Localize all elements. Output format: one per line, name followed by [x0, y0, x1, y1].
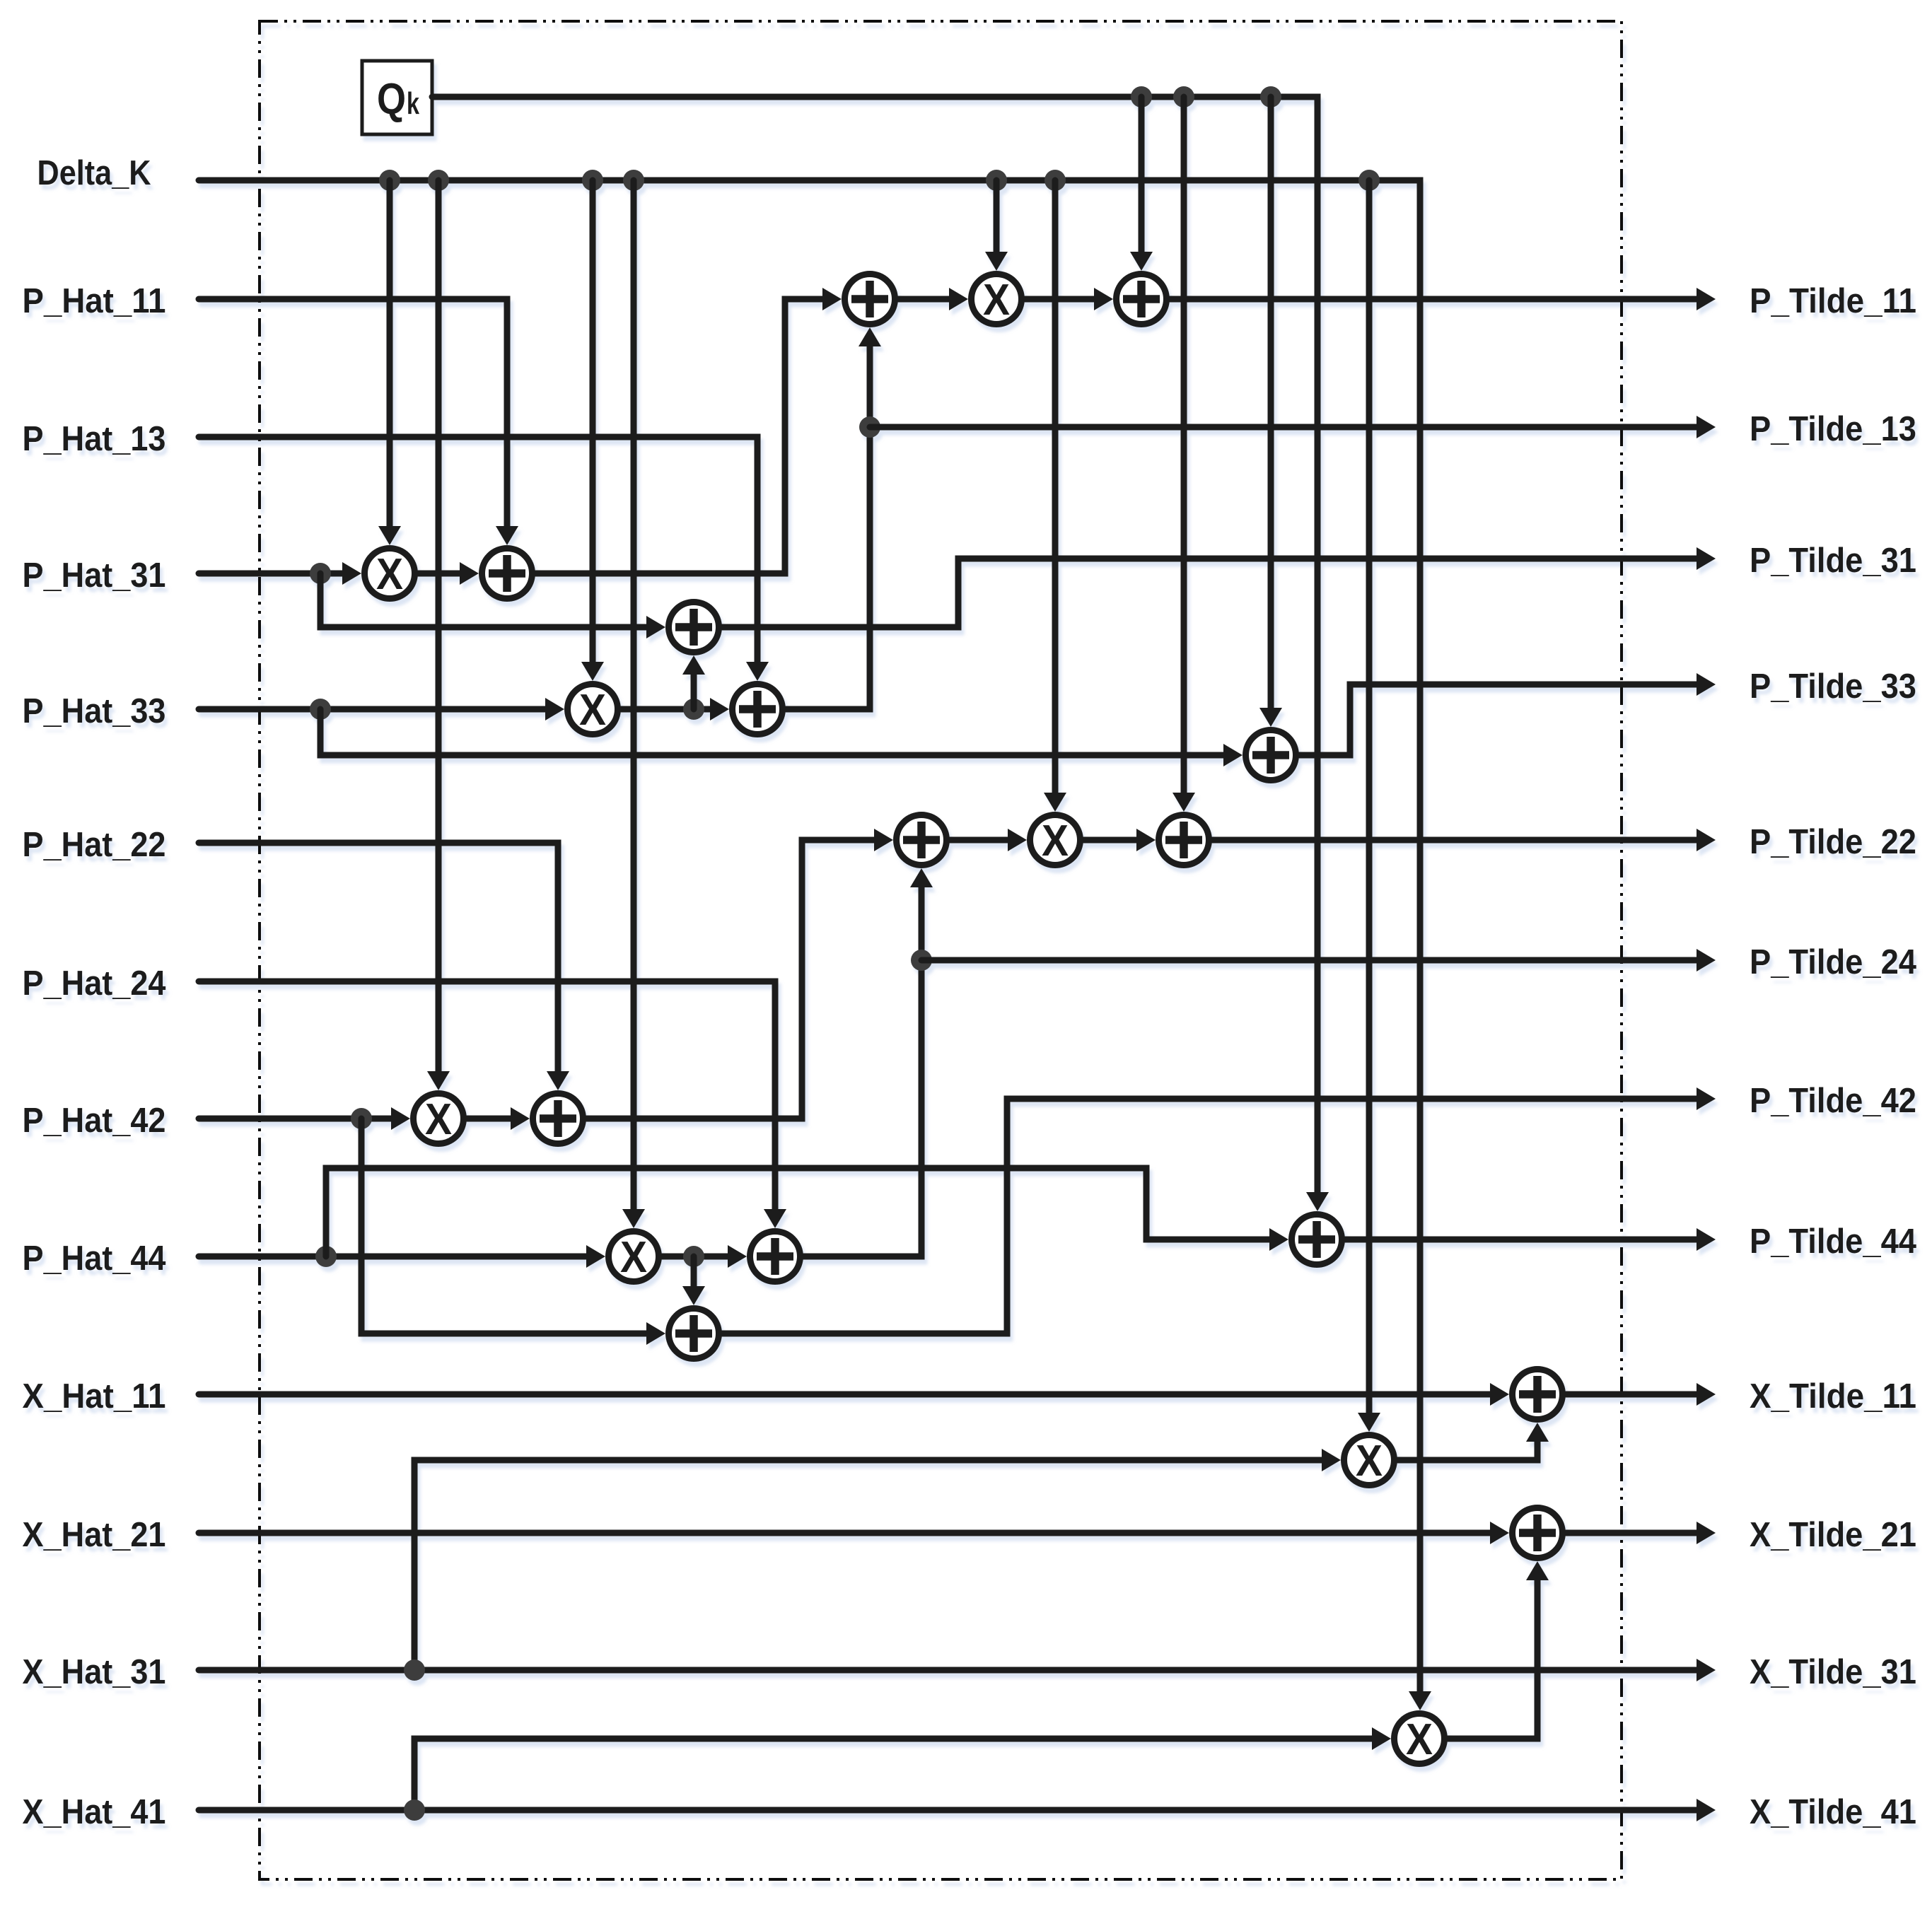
- adder A8: [669, 1309, 719, 1359]
- wire M5 to A9: [728, 1245, 747, 1268]
- wire Qk drop to adder A11: [1172, 793, 1195, 812]
- multiplier M8: [1395, 1714, 1445, 1764]
- multiplier M5: [609, 1232, 659, 1282]
- wire X_Hat_11 input to adder A13: [1490, 1383, 1509, 1406]
- wire Qk rail: [1306, 1192, 1329, 1211]
- svg-text:P_Hat_44: P_Hat_44: [23, 1239, 166, 1278]
- wire P_Hat_33 input: [545, 698, 564, 720]
- adder A6: [1246, 730, 1296, 781]
- junction X_Hat_31 branch: [404, 1659, 425, 1681]
- adder A1: [482, 549, 533, 599]
- svg-text:Delta_K: Delta_K: [37, 154, 151, 192]
- wire Delta_K drop to multiplier M4: [427, 1071, 450, 1090]
- adder A13: [1513, 1370, 1563, 1420]
- junction on Delta_K rail x=838: [582, 170, 603, 191]
- wire P_Tilde_13 output: [870, 424, 1697, 431]
- svg-text:X: X: [1042, 817, 1069, 865]
- svg-text:X: X: [620, 1233, 647, 1282]
- junction after M2: [683, 699, 704, 720]
- svg-text:P_Hat_33: P_Hat_33: [23, 692, 166, 730]
- junction after M5: [683, 1246, 704, 1267]
- wire Qk drop to adder A5: [1130, 252, 1153, 271]
- svg-text:P_Tilde_24: P_Tilde_24: [1750, 943, 1916, 981]
- wire M2 to A3: [710, 698, 729, 720]
- wire A7 out riser to adder A10: [874, 829, 893, 851]
- junction on Delta_K rail x=1492: [1044, 170, 1066, 191]
- svg-text:P_Hat_22: P_Hat_22: [23, 826, 166, 864]
- wire Delta_K drop to multiplier M6: [1044, 793, 1066, 812]
- adder A5: [1117, 274, 1167, 325]
- junction on Qk rail x=1614: [1131, 86, 1152, 107]
- wire P_Hat_44 branch to adder A12: [1269, 1228, 1288, 1251]
- wire P_Hat_13 input to adder A3: [746, 662, 769, 681]
- wire X_Hat_31 input to X_Tilde_31 output: [199, 1667, 1697, 1674]
- wire P_Tilde_24 output: [921, 957, 1697, 964]
- wire P_Hat_24 input to adder A9: [764, 1209, 786, 1228]
- svg-text:P_Hat_31: P_Hat_31: [23, 556, 166, 595]
- adder A14: [1513, 1508, 1563, 1558]
- wire P_Hat_22 input to adder A7: [547, 1071, 569, 1090]
- wire P_Hat_11 input to adder A1: [496, 526, 518, 545]
- adder A7: [533, 1094, 583, 1144]
- wire A1 out riser to adder A4: [822, 288, 842, 310]
- multiplier M2: [568, 684, 618, 735]
- wire A13 out to X_Tilde_11 output: [1566, 1391, 1697, 1398]
- multiplier M4: [414, 1094, 464, 1144]
- svg-text:X_Tilde_41: X_Tilde_41: [1750, 1793, 1916, 1831]
- wire Delta_K drop to multiplier M1: [378, 526, 401, 545]
- adder A9: [750, 1232, 801, 1282]
- wire A6 out to P_Tilde_33 output: [1299, 684, 1697, 755]
- svg-text:X_Hat_11: X_Hat_11: [23, 1377, 166, 1416]
- junction on Delta_K rail x=620: [428, 170, 449, 191]
- svg-text:X: X: [1406, 1715, 1433, 1764]
- junction on Delta_K rail x=896: [623, 170, 644, 191]
- wire P_Hat_42 branch to adder A8: [646, 1322, 665, 1345]
- wire M8 out riser to adder A14: [1526, 1561, 1549, 1580]
- adder A2: [669, 602, 719, 653]
- junction P_Hat_44 branch: [315, 1246, 337, 1267]
- svg-text:X_Hat_31: X_Hat_31: [23, 1653, 166, 1691]
- svg-text:P_Tilde_13: P_Tilde_13: [1750, 410, 1916, 448]
- wire X_Hat_41 input to X_Tilde_41 output: [199, 1807, 1697, 1814]
- svg-text:P_Hat_13: P_Hat_13: [23, 420, 166, 458]
- adder A3: [733, 684, 783, 735]
- wire A9 out riser to adder A10: [910, 868, 933, 887]
- wire A3 out riser to adder A4: [859, 327, 881, 346]
- svg-text:X_Tilde_11: X_Tilde_11: [1750, 1377, 1916, 1416]
- svg-text:X: X: [579, 686, 606, 735]
- adder A10: [897, 815, 947, 865]
- multiplier M7: [1344, 1435, 1395, 1486]
- svg-text:P_Tilde_22: P_Tilde_22: [1750, 823, 1916, 861]
- svg-text:X_Hat_21: X_Hat_21: [23, 1516, 166, 1554]
- adder A11: [1159, 815, 1209, 865]
- wire Delta_K drop to multiplier M5: [622, 1209, 645, 1228]
- wire P_Hat_31 branch to adder A2: [646, 616, 665, 638]
- wire X_Hat_31 branch to multiplier M7: [1322, 1449, 1341, 1471]
- Qk covariance box: [362, 61, 432, 134]
- wire A11 out to P_Tilde_22 output: [1212, 837, 1697, 844]
- wire M1 to A1: [460, 562, 479, 585]
- svg-text:P_Tilde_44: P_Tilde_44: [1750, 1222, 1916, 1261]
- junction X_Hat_41 branch: [404, 1799, 425, 1821]
- svg-text:P_Tilde_11: P_Tilde_11: [1750, 282, 1916, 320]
- wire A14 out to X_Tilde_21 output: [1566, 1530, 1697, 1536]
- dash-dot boundary frame: [260, 21, 1622, 1879]
- adder A12: [1292, 1215, 1342, 1265]
- wire A12 out to P_Tilde_44 output: [1345, 1237, 1697, 1243]
- svg-text:X_Tilde_21: X_Tilde_21: [1750, 1516, 1916, 1554]
- multiplier M1: [365, 549, 415, 599]
- wire Delta_K drop to multiplier M7: [1358, 1413, 1380, 1432]
- svg-text:X_Hat_41: X_Hat_41: [23, 1793, 166, 1831]
- wire M4 to A7: [511, 1107, 530, 1130]
- svg-text:P_Hat_11: P_Hat_11: [23, 282, 166, 320]
- junction on Delta_K rail x=1936: [1358, 170, 1380, 191]
- adder A4: [845, 274, 895, 325]
- svg-text:P_Tilde_42: P_Tilde_42: [1750, 1082, 1916, 1120]
- wire A5 out to P_Tilde_11 output: [1170, 296, 1697, 303]
- svg-text:k: k: [407, 86, 419, 121]
- multiplier M3: [972, 274, 1022, 325]
- junction on Qk rail x=1797: [1260, 86, 1281, 107]
- svg-text:X_Tilde_31: X_Tilde_31: [1750, 1653, 1916, 1691]
- wire Delta_K rail: [1409, 1691, 1431, 1710]
- junction on Qk rail x=1674: [1173, 86, 1194, 107]
- svg-text:X: X: [425, 1095, 452, 1144]
- wire A8 out to P_Tilde_42 output: [722, 1099, 1697, 1334]
- svg-text:Q: Q: [377, 75, 406, 124]
- junction P_Hat_33 branch: [310, 699, 331, 720]
- svg-text:P_Tilde_33: P_Tilde_33: [1750, 667, 1916, 706]
- wire down to adder A8: [682, 1286, 705, 1305]
- wire P_Hat_42 input: [391, 1107, 410, 1130]
- svg-text:P_Tilde_31: P_Tilde_31: [1750, 542, 1916, 580]
- wire A4 to M3: [949, 288, 968, 310]
- wire P_Hat_31 input: [342, 562, 361, 585]
- junction P_Tilde_24 tap: [911, 950, 932, 971]
- svg-text:X: X: [1356, 1437, 1383, 1486]
- junction on Delta_K rail x=551: [379, 170, 400, 191]
- wire Delta_K drop to multiplier M3: [985, 252, 1008, 271]
- wire M6 to A11: [1136, 829, 1156, 851]
- svg-text:X: X: [983, 276, 1010, 325]
- wire A2 out to P_Tilde_31 output: [722, 559, 1697, 627]
- svg-text:P_Hat_42: P_Hat_42: [23, 1102, 166, 1140]
- junction P_Tilde_13 tap: [859, 416, 880, 438]
- wire Qk drop to adder A6: [1259, 708, 1282, 727]
- wire A10 to M6: [1008, 829, 1027, 851]
- wire P_Hat_44 input: [586, 1245, 605, 1268]
- junction P_Hat_42 branch: [351, 1108, 372, 1129]
- wire M7 out riser to adder A13: [1526, 1423, 1549, 1442]
- wire X_Hat_21 input to adder A14: [1490, 1522, 1509, 1544]
- junction P_Hat_31 branch: [310, 563, 331, 584]
- junction on Delta_K rail x=1409: [986, 170, 1007, 191]
- wire up to adder A2: [682, 655, 705, 675]
- wire P_Hat_33 branch to adder A6: [1223, 744, 1243, 766]
- svg-text:X: X: [376, 550, 403, 599]
- multiplier M6: [1030, 815, 1081, 865]
- wire Delta_K drop to multiplier M2: [581, 662, 604, 681]
- svg-text:P_Hat_24: P_Hat_24: [23, 964, 166, 1003]
- wire M3 to A5: [1094, 288, 1113, 310]
- wire X_Hat_41 branch to multiplier M8: [1372, 1727, 1391, 1750]
